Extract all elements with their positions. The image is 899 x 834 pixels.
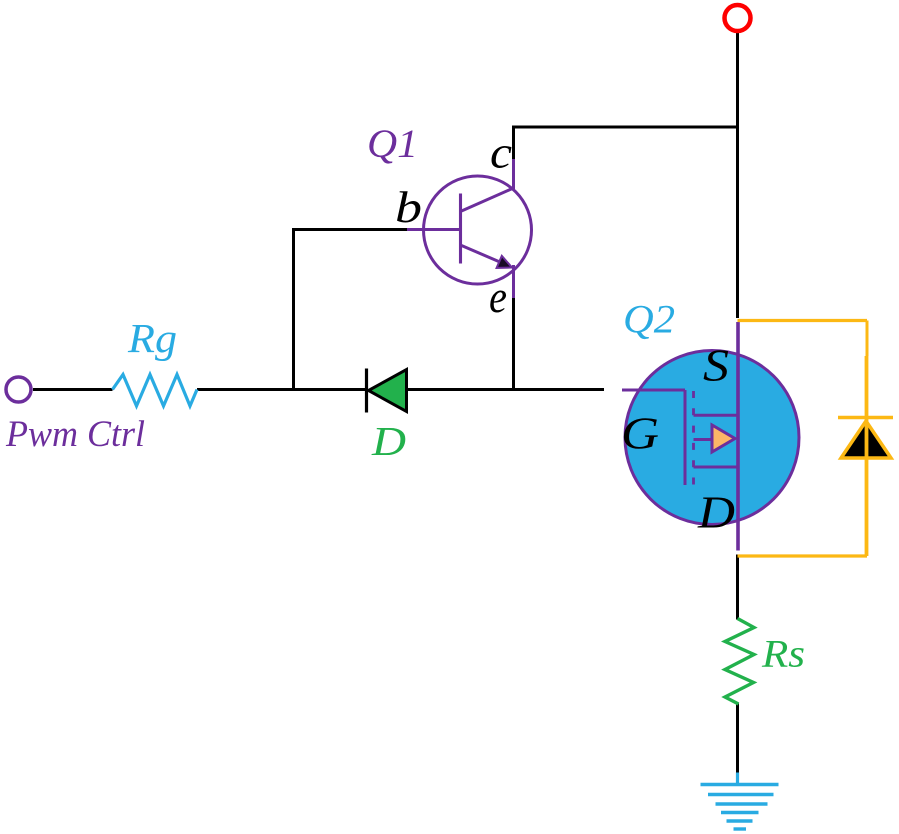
svg-text:Rg: Rg: [127, 315, 177, 361]
svg-text:G: G: [621, 408, 659, 459]
svg-text:c: c: [490, 127, 512, 178]
svg-text:Pwm Ctrl: Pwm Ctrl: [5, 413, 145, 454]
svg-text:Q2: Q2: [623, 297, 675, 342]
svg-text:e: e: [489, 271, 507, 322]
svg-text:D: D: [697, 487, 735, 538]
svg-text:Q1: Q1: [367, 121, 418, 166]
svg-text:b: b: [395, 183, 422, 232]
svg-text:D: D: [371, 418, 406, 464]
svg-text:S: S: [703, 340, 729, 391]
svg-text:Rs: Rs: [761, 633, 805, 676]
